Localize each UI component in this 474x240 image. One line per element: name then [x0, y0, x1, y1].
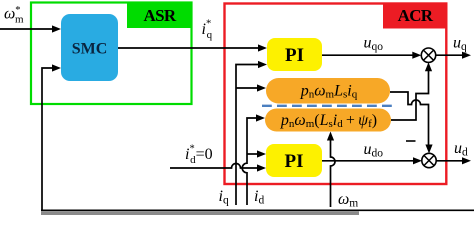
svg-text:i*d=0: i*d=0 — [185, 144, 213, 167]
svg-text:PI: PI — [285, 45, 304, 66]
svg-text:SMC: SMC — [72, 41, 108, 58]
svg-text:ACR: ACR — [398, 6, 434, 25]
svg-text:PI: PI — [285, 151, 304, 172]
svg-text:ASR: ASR — [144, 6, 177, 25]
svg-text:i*q: i*q — [202, 19, 213, 42]
